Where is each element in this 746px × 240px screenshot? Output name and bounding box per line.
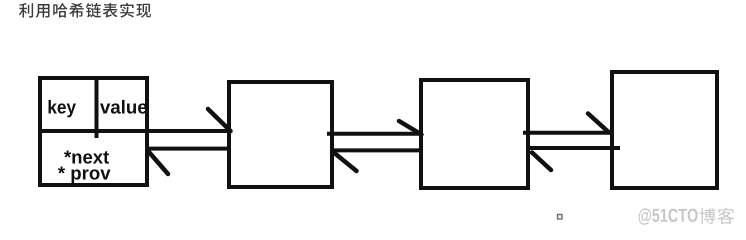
arrowhead into N3 (532, 153, 551, 171)
watermark 客 (718, 208, 734, 224)
wire prev pointer N3 to N2 (331, 148, 420, 152)
arrowhead into N1 (149, 152, 169, 175)
wire next pointer N2 to N3 (327, 132, 420, 136)
label key (49, 100, 76, 118)
label *next (64, 151, 109, 164)
node N1 box (key/value/next/prov) (40, 78, 147, 185)
watermark 博 (699, 208, 715, 224)
node N1 key/value divider (95, 78, 99, 138)
node N1 horizontal divider (38, 129, 149, 133)
watermark @51CTO (639, 208, 698, 224)
wire prev pointer N4 to N3 (528, 146, 620, 150)
arrowhead into N2 (208, 109, 231, 131)
title text: 利用哈希链表实现 (19, 3, 151, 18)
node N3 box (421, 80, 528, 188)
arrowhead into N3 (399, 121, 422, 135)
wire next pointer N1 to N2 (147, 129, 229, 133)
arrowhead into N2 (335, 154, 357, 172)
small gray handle dot (558, 215, 563, 220)
node N4 box (612, 72, 717, 188)
wire next pointer N3 to N4 (523, 131, 610, 135)
node N2 box (229, 82, 332, 187)
arrowhead into N4 (588, 114, 609, 133)
label * prov (58, 167, 111, 184)
label value (100, 100, 147, 114)
wire prev pointer N2 to N1 (147, 147, 229, 151)
